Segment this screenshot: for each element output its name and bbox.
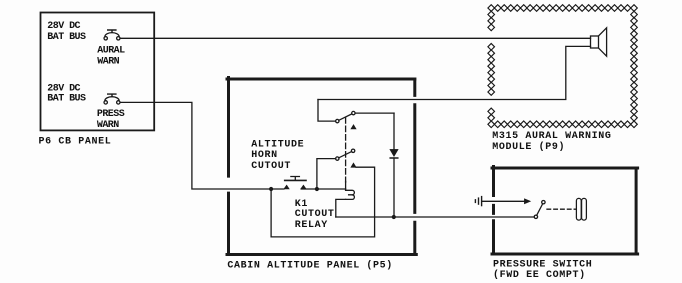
pressure source port (3 bars) [475,197,481,206]
junction dot C (diode / pressure switch wire) [392,215,396,219]
relay coil K1 [336,182,355,218]
diode CR1 [390,113,398,217]
svg-text:PRESSURE SWITCH: PRESSURE SWITCH [493,260,592,271]
svg-text:BAT BUS: BAT BUS [47,94,86,105]
svg-text:RELAY: RELAY [295,220,328,231]
svg-text:HORN: HORN [251,150,277,161]
svg-text:M315 AURAL WARNING: M315 AURAL WARNING [492,131,611,142]
svg-text:WARN: WARN [97,120,119,131]
svg-text:(FWD EE COMPT): (FWD EE COMPT) [493,269,586,281]
svg-text:K1: K1 [295,199,308,210]
M315 aural warning module P9 chain border [488,5,637,128]
wire: upper contact to diode [355,112,394,114]
wire: junction B up to lower relay contact pivot [317,159,336,189]
relay upper contact [336,111,357,129]
svg-text:AURAL: AURAL [97,46,125,57]
cabin altitude panel P5 box (thick, gaps at wire crossings) [227,78,416,255]
svg-text:CUTOUT: CUTOUT [295,209,335,220]
wire: coil bottom to pressure switch [336,216,535,218]
relay linkage dashed line [345,118,347,182]
pressure actuation arrow [482,199,530,204]
svg-text:MODULE (P9): MODULE (P9) [492,141,565,153]
relay lower contact [336,149,357,167]
wire: upper contact pivot feed from speaker line [318,100,336,122]
wire: CB2 right then down to cabin altitude panel [120,102,284,189]
junction dot A (press warn feed split) [269,187,273,191]
wire: CB1 to speaker (28V aural warn feed) [120,37,590,39]
linkage dashes to capsule [547,208,576,210]
svg-text:ALTITUDE: ALTITUDE [251,139,304,150]
pressure switch contact [534,201,545,219]
speaker LS1 [591,28,607,56]
pushbutton switch: altitude horn cutout [284,177,306,190]
wire: bottom loop to lower relay contact NC terminal [271,167,375,237]
wire: pushbutton right side to relay coil [301,188,345,190]
circuit breaker CB1 AURAL WARN [104,30,120,40]
wire: speaker return line across to P9 [318,46,591,99]
svg-text:PRESS: PRESS [97,109,125,120]
svg-text:28V DC: 28V DC [47,21,80,32]
junction dot B (coil / lower contact) [315,187,319,191]
svg-text:P6 CB PANEL: P6 CB PANEL [39,137,112,148]
svg-text:CABIN ALTITUDE PANEL (P5): CABIN ALTITUDE PANEL (P5) [227,260,393,272]
circuit breaker CB2 PRESS WARN [104,94,120,104]
svg-text:WARN: WARN [97,57,119,68]
svg-text:BAT BUS: BAT BUS [47,32,86,43]
P6 CB panel box [41,13,155,131]
svg-text:CUTOUT: CUTOUT [251,161,291,172]
pressure switch box (thick, gaps at left for port+wire) [492,167,638,255]
aneroid capsule [576,198,586,220]
